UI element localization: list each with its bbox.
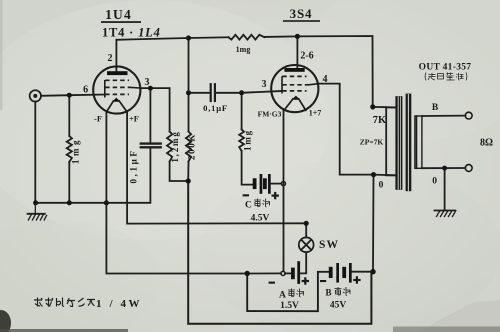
label A battery plus bbox=[302, 277, 309, 284]
node rail-188 bbox=[186, 35, 191, 40]
wire filament return line to A battery minus bbox=[247, 272, 281, 274]
label 3S4 underline bbox=[283, 20, 320, 22]
node A-minus bbox=[245, 271, 250, 276]
ground speaker side bbox=[435, 211, 456, 217]
tube V1 1U4 envelope bbox=[93, 66, 140, 113]
wire ground rail bbox=[36, 148, 151, 203]
svg-text:4: 4 bbox=[323, 74, 328, 85]
resistor R2 1.2mg bbox=[167, 132, 172, 162]
wire secondary bottom lead to terminal 0 bbox=[422, 167, 465, 169]
svg-text:7K: 7K bbox=[373, 115, 387, 126]
node ground-rail-jack bbox=[33, 200, 38, 205]
label kanji denchi after C bbox=[254, 199, 270, 207]
node ring A- junction bbox=[281, 271, 285, 275]
node primary-top bbox=[370, 104, 375, 109]
svg-text:B: B bbox=[432, 103, 439, 113]
wire R5 bottom to C battery minus bbox=[242, 151, 254, 185]
node ground-rail-R1 bbox=[67, 200, 72, 205]
wire A- node down, inner rail, up to B- bbox=[247, 272, 329, 311]
node ring C+ junction bbox=[281, 182, 285, 186]
svg-text:2: 2 bbox=[108, 53, 113, 64]
label A battery minus bbox=[269, 282, 275, 284]
svg-text:B: B bbox=[326, 288, 332, 298]
wire secondary ground stem bbox=[444, 168, 446, 210]
svg-text:C: C bbox=[245, 201, 252, 211]
svg-text:45V: 45V bbox=[330, 301, 347, 311]
transformer T1 core bbox=[406, 94, 412, 192]
svg-text:2-6: 2-6 bbox=[300, 51, 313, 62]
wire R1 bottom lead bbox=[68, 162, 70, 203]
svg-text:0,1μF: 0,1μF bbox=[203, 103, 228, 113]
node pin3-cap bbox=[148, 86, 153, 91]
label kasuga-musen maker name in parens bbox=[425, 73, 467, 81]
svg-text:0: 0 bbox=[432, 177, 437, 187]
wire A+ lead up to switch bbox=[299, 252, 306, 273]
svg-text:4.5V: 4.5V bbox=[251, 214, 270, 224]
transformer T1 primary winding bbox=[386, 96, 402, 190]
capacitor C1 0.1uF plates bbox=[141, 144, 161, 148]
wire R3 bottom lead bbox=[187, 162, 189, 182]
battery BT-A 1.5V plates bbox=[292, 262, 300, 284]
svg-text:-F: -F bbox=[94, 114, 102, 124]
terminal B output post bbox=[465, 112, 472, 119]
label fraction bar bbox=[101, 21, 141, 23]
wire B+ lead to node bbox=[351, 271, 373, 273]
svg-text:1,2mg: 1,2mg bbox=[170, 130, 180, 162]
resistor R3 200K bbox=[186, 132, 191, 162]
tube V2 plate bar bbox=[284, 68, 304, 72]
tube V2 filament bbox=[284, 96, 307, 111]
svg-text:1mg: 1mg bbox=[236, 45, 251, 54]
node secondary-0 bbox=[442, 166, 447, 171]
svg-text:6: 6 bbox=[83, 85, 88, 96]
resistor R5 1mg grid V2 bbox=[239, 129, 244, 151]
battery BT-B 45V plates bbox=[329, 264, 351, 282]
decorative page tone marks bbox=[0, 310, 11, 332]
node primary-bottom bbox=[371, 172, 376, 177]
node SW-top bbox=[304, 221, 309, 226]
wire tube V2 plate lead bbox=[296, 36, 298, 68]
wire V1 -F lead down through ground rail to filament return line bbox=[106, 112, 245, 274]
battery BT-C 4.5V plates bbox=[253, 175, 270, 194]
svg-text:OUT 41-357: OUT 41-357 bbox=[419, 63, 472, 73]
svg-text:FM·G3: FM·G3 bbox=[258, 110, 282, 119]
svg-text:SW: SW bbox=[319, 239, 339, 251]
svg-text:0,1μF: 0,1μF bbox=[129, 149, 139, 184]
wire primary top lead bbox=[373, 106, 395, 109]
wire A- node ring to battery plate bbox=[285, 272, 292, 274]
wire top B+ rail bbox=[116, 37, 228, 40]
wire V2 pin4 inner lead bbox=[309, 84, 318, 85]
wire C battery plus lead to filament node bbox=[270, 183, 281, 185]
svg-text:1mg: 1mg bbox=[71, 137, 81, 164]
resistor R1 1mg grid bbox=[67, 136, 72, 162]
svg-text:1 / 4W: 1 / 4W bbox=[96, 298, 142, 310]
node rail-297 bbox=[295, 34, 300, 39]
wire screen dropper: rail to coupling node bbox=[188, 38, 190, 93]
label B battery plus bbox=[353, 276, 360, 283]
tube V2 3S4 envelope bbox=[271, 65, 318, 112]
svg-text:ZP=7K: ZP=7K bbox=[360, 138, 384, 147]
node R2-R3 bbox=[186, 178, 191, 183]
label bottom note kanji: teiko wa subete bbox=[34, 298, 95, 307]
svg-text:0: 0 bbox=[379, 181, 384, 191]
wire C1 top lead to pin3 node bbox=[149, 88, 151, 143]
svg-text:A: A bbox=[279, 291, 286, 301]
jack J1 input bbox=[30, 90, 41, 101]
tube V1 filament bbox=[106, 98, 127, 112]
wire tube V1 plate lead pin2 bbox=[115, 40, 117, 72]
ground input side bbox=[28, 203, 47, 220]
wire R5 top lead bbox=[241, 93, 243, 130]
wire coupling node down to R3 bbox=[188, 93, 190, 132]
wire V1 pin3 inner lead bbox=[131, 86, 140, 89]
wire secondary top lead to terminal B bbox=[422, 115, 465, 117]
node input-grid bbox=[67, 93, 72, 98]
wire V1 +F lead down and filament feed line to SW node bbox=[127, 112, 306, 224]
wire V2 filament minus lead down to A battery line bbox=[283, 111, 285, 271]
wire coupling line left bbox=[189, 92, 211, 94]
label C battery minus bbox=[243, 194, 249, 196]
svg-text:3S4: 3S4 bbox=[290, 6, 313, 21]
wire R2 bottom lead to node bbox=[170, 162, 188, 182]
svg-text:8Ω: 8Ω bbox=[480, 138, 493, 149]
node B-plus bbox=[370, 269, 375, 274]
svg-text:1+7: 1+7 bbox=[309, 109, 322, 118]
transformer T1 secondary winding bbox=[415, 116, 422, 168]
svg-text:1mg: 1mg bbox=[243, 129, 253, 151]
capacitor C2 0.1uF coupling plates bbox=[211, 84, 215, 101]
label C battery plus bbox=[272, 192, 279, 199]
tube V1 plate bar bbox=[107, 71, 128, 75]
tube V2 grid bracket bbox=[281, 76, 283, 93]
wire B- return: node down, bottom rail, up to B+ node bbox=[188, 181, 371, 324]
svg-text:1.5V: 1.5V bbox=[280, 301, 299, 311]
wire B+ node up to primary bottom node bbox=[372, 175, 375, 272]
wire input jack to V1 grid pin6 bbox=[41, 95, 105, 96]
svg-text:1T4 · 1L4: 1T4 · 1L4 bbox=[102, 26, 161, 40]
switch SW lamp symbol bbox=[299, 237, 314, 252]
svg-text:3: 3 bbox=[262, 79, 267, 90]
wire jack sleeve down to ground rail bbox=[34, 102, 36, 203]
svg-text:+F: +F bbox=[129, 114, 139, 124]
svg-text:200K: 200K bbox=[187, 133, 197, 160]
terminal 0 output post bbox=[465, 165, 472, 172]
wire SW node to switch top bbox=[305, 223, 307, 237]
label B battery minus bbox=[320, 280, 326, 282]
wire primary bottom lead bbox=[374, 174, 396, 177]
tube V1 grid rows bbox=[105, 80, 131, 94]
label kanji denchi after B bbox=[335, 287, 351, 295]
wire V2 pin4 plate line down and right to primary bottom node bbox=[318, 84, 374, 175]
label kanji denchi after A bbox=[288, 289, 304, 297]
tube V1 grid bracket bbox=[104, 80, 106, 98]
resistor R4 1mg top rail bbox=[228, 35, 264, 40]
wire R1 top lead bbox=[68, 95, 70, 136]
node coupling-left bbox=[186, 90, 191, 95]
svg-text:3: 3 bbox=[145, 77, 150, 88]
wire V1 pin3 line bbox=[140, 88, 169, 131]
node coupling-right bbox=[239, 90, 244, 95]
wire top rail right of R4 to transformer drop bbox=[264, 36, 372, 107]
node ground-rail-F bbox=[104, 200, 109, 205]
svg-text:1U4: 1U4 bbox=[105, 7, 132, 22]
wire coupling line right to V2 grid pin3 bbox=[216, 91, 282, 93]
tube V2 grid rows bbox=[282, 76, 308, 91]
